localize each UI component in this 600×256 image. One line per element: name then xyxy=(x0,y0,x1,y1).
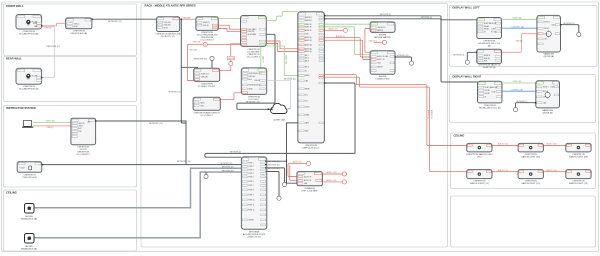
wire AUDIO SP5 to SP6 xyxy=(543,169,565,172)
svg-text:USB (1C): USB (1C) xyxy=(369,41,377,43)
svg-text:DISPLAY WALL RIGHT: DISPLAY WALL RIGHT xyxy=(453,75,482,79)
switcher D DMPS3 (rack) xyxy=(298,12,325,150)
svg-text:PORT 5: PORT 5 xyxy=(248,176,253,178)
svg-text:CLIENT LAN: CLIENT LAN xyxy=(273,118,286,121)
wire CONTROL (A) R to S (blue) xyxy=(502,25,537,28)
node AUDIO (Y) amp out ref xyxy=(322,179,346,184)
receiver RX1 (front wall) xyxy=(66,18,92,35)
wire VIDEO D to Q (green) xyxy=(324,27,370,55)
svg-text:TSW-1070-B-S: TSW-1070-B-S xyxy=(22,177,37,179)
svg-text:NETWORK (11): NETWORK (11) xyxy=(268,164,280,166)
container CEILING right xyxy=(451,133,596,189)
container DISPLAY WALL RIGHT xyxy=(450,75,596,123)
wire LAN trunk front cam to rear cam (NETWORK 12) xyxy=(42,27,61,78)
svg-text:VIDEO (B): VIDEO (B) xyxy=(285,55,287,64)
wire USB B to C (red, lower) xyxy=(218,29,240,32)
svg-text:NETWORK (17): NETWORK (17) xyxy=(222,167,234,169)
svg-text:I/O 2: I/O 2 xyxy=(305,100,308,102)
wire NETWORK D to display wall right RX (dark) xyxy=(324,14,478,82)
svg-text:USB-C: USB-C xyxy=(78,126,84,128)
svg-text:PORT 12: PORT 12 xyxy=(248,209,254,211)
container FLOOR (empty) xyxy=(451,196,596,247)
wire NETWORK (15) UC-PR to switch xyxy=(95,120,186,164)
svg-text:NETWORK (10): NETWORK (10) xyxy=(268,161,280,163)
svg-text:SAROS ICE6T (X2): SAROS ICE6T (X2) xyxy=(521,156,540,159)
node AUDIO (9) ref to amp xyxy=(288,161,311,181)
svg-text:PORT 1: PORT 1 xyxy=(248,162,253,164)
svg-text:AUDIO (X2): AUDIO (X2) xyxy=(498,143,508,146)
svg-text:FRONT WALL: FRONT WALL xyxy=(6,4,24,8)
svg-text:HDMI (B): HDMI (B) xyxy=(490,87,497,89)
svg-text:USB HOST: USB HOST xyxy=(377,27,385,29)
cloud CLIENT LAN xyxy=(270,103,287,121)
node USB (1C) ref circle xyxy=(369,40,387,44)
container FRONT WALL xyxy=(4,4,137,56)
svg-text:PORT 10: PORT 10 xyxy=(248,199,254,201)
container DISPLAY WALL LEFT xyxy=(450,6,598,67)
svg-text:NETWORK (2): NETWORK (2) xyxy=(230,152,241,154)
speaker SP5 (ceiling row2) xyxy=(518,170,543,186)
svg-text:USB (2B): USB (2B) xyxy=(164,25,171,27)
svg-text:REAR WALL: REAR WALL xyxy=(6,57,22,61)
svg-text:HDMI: HDMI xyxy=(164,27,169,29)
speaker SP1 (ceiling row1) xyxy=(466,143,493,158)
svg-text:UC-BRKT-200-S-T: UC-BRKT-200-S-T xyxy=(198,86,217,88)
svg-text:SAROS ICE6T (Y2): SAROS ICE6T (Y2) xyxy=(521,182,540,185)
wire LAN D down and U-turn to switch (dark) xyxy=(205,82,355,157)
wire LAN C to G (green vertical) xyxy=(261,46,265,68)
svg-text:USB 2A: USB 2A xyxy=(228,57,235,60)
wire NETWORK (B) S2 to ref node xyxy=(514,101,537,112)
svg-text:(SWITCH) (Y): (SWITCH) (Y) xyxy=(247,236,261,238)
svg-text:NETWORK (5): NETWORK (5) xyxy=(564,23,575,25)
touch panel TSW (instructor station) xyxy=(17,162,42,179)
svg-text:USB (2B): USB (2B) xyxy=(248,31,255,33)
node NETWORK (14) circle from Q xyxy=(395,55,414,65)
wire NETWORK D to display wall left RX (dark) xyxy=(324,17,477,20)
container RACK xyxy=(141,4,448,248)
svg-text:SAROS ICE6T (X3): SAROS ICE6T (X3) xyxy=(569,156,588,159)
svg-text:VIDEO (B): VIDEO (B) xyxy=(513,81,522,83)
svg-text:NETWORK (12): NETWORK (12) xyxy=(108,21,122,23)
svg-text:PORT 9: PORT 9 xyxy=(248,194,253,196)
svg-text:USB (1A): USB (1A) xyxy=(193,41,201,44)
svg-text:COM: COM xyxy=(491,29,495,31)
camera CAM1 (front wall) xyxy=(16,15,42,36)
svg-text:NETWORK (12): NETWORK (12) xyxy=(47,46,61,48)
wire LAN G to cloud (light) xyxy=(267,80,291,108)
svg-text:GND: GND xyxy=(305,130,308,132)
svg-text:USB (A): USB (A) xyxy=(516,40,523,43)
svg-text:NETWORK (6): NETWORK (6) xyxy=(454,55,465,57)
svg-text:HDMI: HDMI xyxy=(200,103,205,105)
node AUDIO (X) amp out ref xyxy=(322,171,346,176)
svg-text:HDMI IN 2: HDMI IN 2 xyxy=(305,20,312,22)
svg-text:NETWORK (16): NETWORK (16) xyxy=(177,161,191,163)
decoder A (rack, camera RX) xyxy=(155,17,181,38)
svg-text:REMOTE (A): REMOTE (A) xyxy=(483,66,496,69)
svg-text:RS232: RS232 xyxy=(544,28,549,30)
svg-text:RACK - MIDDLE ATLANTIC RFR SER: RACK - MIDDLE ATLANTIC RFR SERIES xyxy=(145,4,196,8)
svg-text:QB75B (A): QB75B (A) xyxy=(544,55,555,58)
svg-text:MIC 3: MIC 3 xyxy=(305,60,309,62)
svg-text:W-CAM-IFP4CE (A): W-CAM-IFP4CE (A) xyxy=(19,33,38,36)
svg-text:LAN (P): LAN (P) xyxy=(261,56,264,63)
svg-text:PORT 8: PORT 8 xyxy=(248,189,253,191)
svg-text:MIC 1: MIC 1 xyxy=(305,55,309,57)
wire VIDEO (A) R to S (green) xyxy=(502,17,537,20)
svg-text:USB (1B): USB (1B) xyxy=(189,50,197,52)
svg-text:(X1): (X1) xyxy=(477,157,481,159)
svg-text:NETWORK (3): NETWORK (3) xyxy=(421,17,432,19)
svg-text:USB (1): USB (1) xyxy=(45,28,52,30)
engine C UC-ENGINE (rack) xyxy=(241,16,267,59)
switch right pin wires and refs xyxy=(265,161,287,201)
wire USB P to Q (red left hook) xyxy=(365,29,370,53)
svg-text:SAROS ICE6T (Y1): SAROS ICE6T (Y1) xyxy=(470,182,489,185)
svg-text:AUDIO (6): AUDIO (6) xyxy=(430,110,433,119)
svg-text:USB (1B): USB (1B) xyxy=(201,76,208,78)
svg-text:UC-C100-T: UC-C100-T xyxy=(248,99,260,101)
svg-text:AUDIO (X3): AUDIO (X3) xyxy=(547,143,557,146)
wire LAN C to cloud (NETWORK 13) xyxy=(237,34,275,110)
svg-text:W-CAM-IFP4CE (B): W-CAM-IFP4CE (B) xyxy=(19,87,38,90)
wire C to D red pair xyxy=(266,41,298,49)
svg-text:USB (1): USB (1) xyxy=(74,23,80,25)
svg-text:HDMI 1: HDMI 1 xyxy=(544,22,550,24)
svg-text:SAROS ICE6T (Y3): SAROS ICE6T (Y3) xyxy=(569,182,588,185)
wire NETWORK (12) RX1 to rack xyxy=(91,18,156,22)
display S2 Samsung (right) xyxy=(536,81,560,115)
container REAR WALL xyxy=(4,57,137,102)
svg-text:CEILING: CEILING xyxy=(6,190,17,194)
svg-text:NETWORK (16): NETWORK (16) xyxy=(221,163,233,165)
wire VIDEO (A) laptop to UC-PR (green) xyxy=(33,120,71,123)
receiver R2 (display wall right) xyxy=(478,81,503,109)
svg-text:HDMI: HDMI xyxy=(248,89,253,91)
svg-text:USB (2B): USB (2B) xyxy=(183,17,191,19)
wire AUDIO D to Q pair (red) xyxy=(324,38,370,57)
container INSTRUCTOR STATION xyxy=(4,106,137,188)
svg-text:AUDIO (1): AUDIO (1) xyxy=(336,35,345,38)
svg-text:VIDEO IN: VIDEO IN xyxy=(305,27,311,29)
svg-text:IR OUT: IR OUT xyxy=(491,32,497,34)
svg-text:HDMI 1: HDMI 1 xyxy=(543,87,549,89)
laptop (instructor station) xyxy=(22,120,33,127)
svg-text:MXA920W-S (A): MXA920W-S (A) xyxy=(21,217,37,220)
svg-text:VIDEO (A): VIDEO (A) xyxy=(46,120,55,123)
wire USB B to C (red, upper) xyxy=(218,25,240,29)
svg-text:VIDEO IN: VIDEO IN xyxy=(305,24,311,26)
svg-text:ANIUSB-MATRIX: ANIUSB-MATRIX xyxy=(374,36,391,39)
wire NETWORK (16) touch panel to switch xyxy=(41,161,242,165)
wire NETWORK (A) S to ref node xyxy=(560,23,581,37)
svg-text:UC-COUNT-T: UC-COUNT-T xyxy=(77,154,91,156)
node NETWORK (16) circle to bracket E xyxy=(194,56,215,68)
bridge B (rack) xyxy=(196,17,218,42)
svg-text:UC-COUNT-T: UC-COUNT-T xyxy=(247,56,261,58)
wire LAN B to C (green) xyxy=(218,18,240,20)
wire AUDIO D to ceiling row1 (red) xyxy=(324,75,466,146)
svg-text:NETWORK (15): NETWORK (15) xyxy=(149,123,163,125)
svg-text:QB75B (B): QB75B (B) xyxy=(542,113,553,115)
wire F to G (red) xyxy=(220,93,241,100)
hub G UC-C100 (rack) xyxy=(241,68,266,101)
wire network trunk to bracket E xyxy=(169,18,198,123)
svg-text:DISPLAY WALL LEFT: DISPLAY WALL LEFT xyxy=(453,6,480,10)
dsp P ANIUSB-MATRIX xyxy=(370,22,395,39)
svg-text:USB (2B): USB (2B) xyxy=(164,22,171,24)
wire mic1 to switch xyxy=(34,168,242,207)
svg-text:PORT 3: PORT 3 xyxy=(248,169,253,171)
svg-text:USB (C): USB (C) xyxy=(255,85,262,87)
svg-text:AUDIO (5): AUDIO (5) xyxy=(427,110,430,119)
svg-text:MIC 4: MIC 4 xyxy=(305,66,309,68)
svg-text:USB (C): USB (C) xyxy=(47,127,54,129)
speaker SP3 (ceiling row1) xyxy=(566,143,591,158)
svg-text:USB (1): USB (1) xyxy=(203,25,209,27)
svg-text:IntelliMix P300: IntelliMix P300 xyxy=(376,77,391,80)
svg-text:VIDEO (A): VIDEO (A) xyxy=(513,17,522,20)
wire LAN2 D to switch/amp junction xyxy=(265,123,297,183)
speaker SP2 (ceiling row1) xyxy=(518,143,543,158)
svg-text:PORT 6: PORT 6 xyxy=(248,181,253,183)
wire USB (B) T to S (red) xyxy=(502,34,537,53)
svg-text:IR: IR xyxy=(305,70,306,72)
bracket E UC-BRKT (rack) xyxy=(194,68,220,88)
svg-text:UPLINK: UPLINK xyxy=(248,219,253,221)
node USB (1A) circle to C xyxy=(193,41,241,47)
svg-text:TOUCH: TOUCH xyxy=(19,168,26,170)
svg-text:PORT 4: PORT 4 xyxy=(248,173,253,175)
svg-text:NETWORK (13): NETWORK (13) xyxy=(284,79,296,81)
svg-text:COM: COM xyxy=(492,92,496,94)
svg-text:MXA920W-S (B): MXA920W-S (B) xyxy=(21,247,37,250)
svg-text:USB: USB xyxy=(377,63,380,65)
svg-text:HD-MD-4KZ-101-C (B): HD-MD-4KZ-101-C (B) xyxy=(479,107,501,109)
svg-text:UC-COUNT-T: UC-COUNT-T xyxy=(200,40,214,42)
wire CONTROL (B) R2 to S2 (blue) xyxy=(502,89,536,91)
svg-text:CONTROL (B): CONTROL (B) xyxy=(511,89,524,91)
dsp Q P300 IntelliMix xyxy=(370,51,395,81)
wire USB (1) CAM1 to RX1 (red) xyxy=(41,23,66,29)
svg-text:HDMI IN: HDMI IN xyxy=(78,123,85,125)
bracket F UC-CONN (rack) xyxy=(193,97,220,117)
svg-text:NETWORK (13): NETWORK (13) xyxy=(246,101,260,103)
svg-text:DMPS3-4K-350-C: DMPS3-4K-350-C xyxy=(302,148,320,150)
switch NETGEAR M4250 (rack) xyxy=(241,157,266,239)
scaler R (display wall left) xyxy=(477,18,502,48)
speaker SP4 (ceiling row2) xyxy=(467,170,492,186)
svg-text:HDMI: HDMI xyxy=(74,26,79,28)
svg-text:AUDIO (Y2): AUDIO (Y2) xyxy=(498,169,508,172)
camera CAM2 (rear wall) xyxy=(16,68,42,90)
node NETWORK (L) ref from T xyxy=(454,52,478,65)
display S Samsung (left) xyxy=(537,15,561,58)
svg-text:OUT: OUT xyxy=(253,29,256,31)
wire VIDEO D to ANIUSB P (green) xyxy=(324,23,370,25)
svg-text:USB (B): USB (B) xyxy=(484,58,490,60)
wire AUDIO SP4 to SP5 xyxy=(492,169,518,172)
container CEILING left xyxy=(4,190,137,251)
wire AUDIO D to ceiling row2 (red) xyxy=(324,77,466,171)
svg-text:HDMI OUT: HDMI OUT xyxy=(201,74,209,76)
node AUDIO (7) ref circle xyxy=(324,28,347,33)
svg-text:INSTRUCTOR STATION: INSTRUCTOR STATION xyxy=(6,106,36,110)
wire VIDEO (B) R2 to S2 (green) xyxy=(502,81,536,83)
svg-text:AUDIO (7): AUDIO (7) xyxy=(329,28,338,31)
svg-text:HDMI IN 1: HDMI IN 1 xyxy=(305,17,312,19)
svg-text:MIC 2: MIC 2 xyxy=(305,58,309,60)
svg-text:NETWORK (18): NETWORK (18) xyxy=(222,170,234,172)
svg-text:AUDIO (10): AUDIO (10) xyxy=(327,171,337,174)
panel T scheduling (display wall left) xyxy=(477,49,502,69)
wire USB (C) laptop to UC-PR (red) xyxy=(33,126,71,129)
wire C to D green (video return) xyxy=(266,46,298,76)
wire LAN C to D (green hook over top) xyxy=(266,12,298,21)
codec UC-PR (instructor station) xyxy=(71,118,96,156)
chip+node USB (2A) inline ref xyxy=(220,44,241,71)
svg-text:PORT 11: PORT 11 xyxy=(248,204,254,206)
svg-text:HDMI: HDMI xyxy=(33,23,38,25)
svg-text:NETWORK (17): NETWORK (17) xyxy=(169,92,181,94)
node A hanging ref on mic2 line xyxy=(204,172,208,179)
wire AUDIO SP1 to SP2 xyxy=(492,143,518,146)
svg-text:AUDIO (Y3): AUDIO (Y3) xyxy=(547,169,557,172)
svg-text:USB: USB xyxy=(200,105,203,107)
svg-text:USB: USB xyxy=(544,33,547,35)
svg-text:HDMI IN: HDMI IN xyxy=(484,55,491,57)
mic MIC2 (ceiling) xyxy=(21,234,37,251)
svg-text:PORT 2: PORT 2 xyxy=(248,166,253,168)
svg-text:COM 2: COM 2 xyxy=(305,106,310,108)
svg-text:CEILING: CEILING xyxy=(454,133,465,137)
svg-text:NETWORK (7): NETWORK (7) xyxy=(517,101,528,103)
amp H (rack) xyxy=(297,172,323,193)
svg-text:USB: USB xyxy=(550,87,553,89)
mic MIC1 (ceiling) xyxy=(21,204,37,221)
svg-text:DM-NVX-E30 (A): DM-NVX-E30 (A) xyxy=(71,32,88,35)
svg-text:HDMI (1): HDMI (1) xyxy=(203,22,210,24)
svg-text:NETWORK (14): NETWORK (14) xyxy=(397,55,409,57)
svg-text:DSP 2-150 MKIII: DSP 2-150 MKIII xyxy=(302,191,318,193)
svg-text:ROBOTIC (T): ROBOTIC (T) xyxy=(162,36,175,38)
svg-text:AUDIO (9): AUDIO (9) xyxy=(293,161,302,164)
svg-text:PORT 7: PORT 7 xyxy=(248,185,253,187)
wire mic2 to switch xyxy=(34,172,242,238)
speaker SP6 (ceiling row2) xyxy=(566,170,591,186)
svg-text:CONTROL (A): CONTROL (A) xyxy=(512,25,525,28)
wire AUDIO SP2 to SP3 xyxy=(543,143,565,146)
svg-text:AUDIO (11): AUDIO (11) xyxy=(327,179,337,182)
svg-text:I/O 1: I/O 1 xyxy=(305,94,308,96)
svg-text:NETWORK (16): NETWORK (16) xyxy=(194,58,208,60)
wire USB (1B) circle1 to bracket E xyxy=(188,44,203,80)
svg-text:NETWORK (4): NETWORK (4) xyxy=(380,14,391,16)
svg-text:UC-CONN-T: UC-CONN-T xyxy=(201,115,214,117)
svg-text:(A): (A) xyxy=(488,45,491,48)
wire USB (2B) A to B (red) xyxy=(180,17,196,19)
